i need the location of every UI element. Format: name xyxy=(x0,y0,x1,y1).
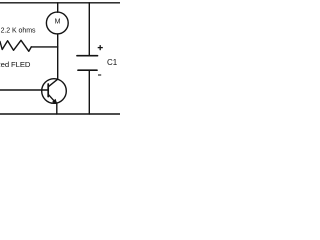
svg-text:Red FLED: Red FLED xyxy=(0,60,31,69)
wire resistor to collector node xyxy=(31,46,57,48)
transistor emitter diagonal xyxy=(48,94,56,103)
capacitor C1 bottom plate xyxy=(78,69,97,71)
capacitor C1 bottom lead xyxy=(88,70,90,114)
motor M xyxy=(46,12,68,34)
svg-text:M: M xyxy=(55,18,61,25)
transistor base bar xyxy=(47,84,49,97)
wire transistor base lead xyxy=(0,89,48,91)
svg-text:C1: C1 xyxy=(107,58,118,67)
wire emitter lead to bottom rail xyxy=(56,103,58,114)
wire bottom supply rail xyxy=(0,113,120,115)
plus sign of C1 xyxy=(98,45,103,50)
transistor collector diagonal xyxy=(48,79,58,87)
capacitor C1 top plate xyxy=(77,55,98,57)
wire motor top lead xyxy=(57,3,59,13)
resistor R 2.2K zigzag xyxy=(0,40,31,51)
transistor emitter arrowhead xyxy=(53,99,57,104)
wire motor bottom lead to collector xyxy=(57,34,59,79)
svg-text:2.2 K ohms: 2.2 K ohms xyxy=(1,27,36,34)
minus sign of C1 xyxy=(98,74,101,76)
capacitor C1 top lead xyxy=(88,3,90,56)
wire top supply rail xyxy=(0,2,120,4)
transistor Q1 circle xyxy=(42,79,67,104)
